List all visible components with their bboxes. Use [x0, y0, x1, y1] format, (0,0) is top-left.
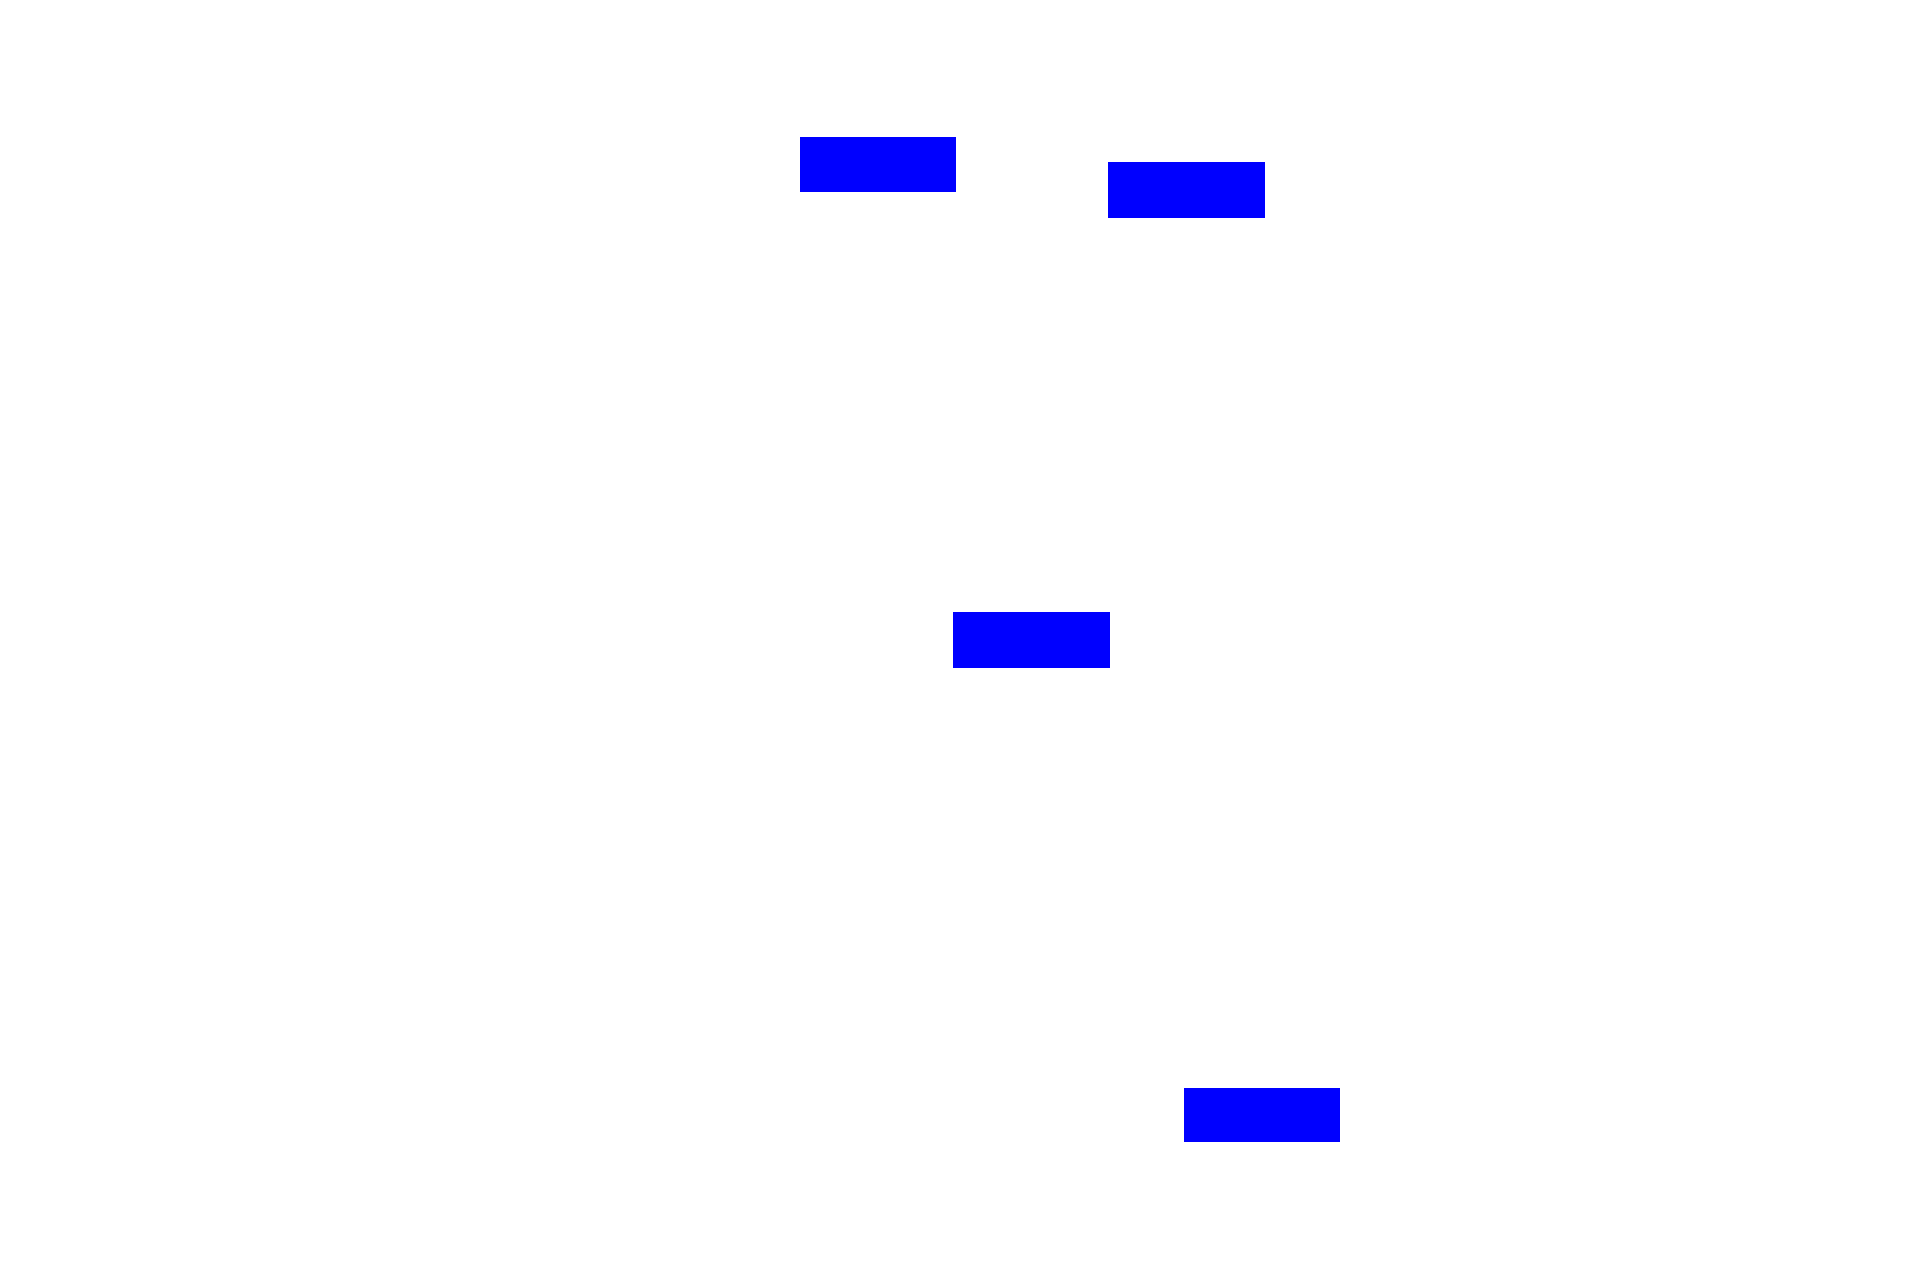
blue rectangle 2 (top right) [1108, 162, 1265, 218]
blue rectangle 3 (middle) [953, 612, 1110, 668]
blue rectangle 4 (bottom) [1184, 1088, 1340, 1142]
blue rectangle 1 (top left of cluster) [800, 137, 956, 192]
